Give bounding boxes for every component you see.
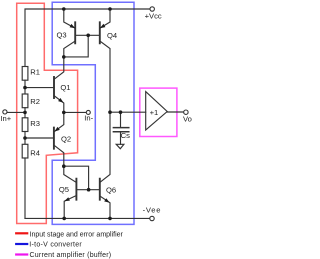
wire: mirror diode connection [64, 35, 88, 57]
svg-text:Cs: Cs [121, 131, 130, 140]
terminal +Vcc [150, 7, 154, 11]
terminal -Vee [150, 216, 154, 220]
wire: Q5-Q6 base tie [76, 189, 99, 191]
legend magenta key [16, 253, 27, 255]
node: summing node [108, 110, 112, 114]
ground [116, 144, 124, 148]
node: Q2/Q5 collector junction [62, 164, 66, 168]
node: mirror base tap [86, 34, 90, 38]
svg-text:In-: In- [84, 114, 93, 123]
wire: Q6 emitter lead [100, 196, 110, 218]
wire: op-amp output [167, 111, 183, 113]
node: R3/R4 junction [23, 136, 27, 140]
wire: R1-R2 lead [24, 80, 26, 94]
wire: Q2 emitter lead [54, 112, 64, 131]
node: Q5/Q6 base tap [87, 188, 91, 192]
svg-text:-Vee: -Vee [143, 205, 162, 214]
wire: Cs top lead [120, 112, 122, 127]
wire: Q1 emitter to In- node [54, 96, 64, 113]
legend [16, 233, 27, 254]
wire: +Vcc rail [25, 9, 150, 67]
transistor Q4 [100, 22, 106, 43]
wire: Q1 base wire [25, 87, 54, 89]
legend blue key [16, 243, 27, 245]
svg-text:+Vcc: +Vcc [145, 12, 162, 21]
terminal In- [86, 110, 90, 114]
node: R1/R2 junction [23, 86, 27, 90]
svg-text:Q5: Q5 [59, 185, 69, 194]
transistor Q2 [54, 127, 60, 149]
region box: I-to-V converter (blue) [52, 2, 134, 224]
region box: input stage and error amplifier (red) [17, 3, 78, 223]
op-amp U1 triangle [146, 92, 168, 130]
legend red key [16, 232, 27, 234]
transistor Q1 [54, 77, 64, 103]
svg-text:Q6: Q6 [106, 185, 116, 194]
svg-text:R2: R2 [30, 97, 40, 106]
wire: Q3 collector lead [64, 41, 75, 57]
wire: R2-R3 lead [24, 108, 26, 118]
wire: Q2 base wire [25, 137, 54, 139]
wire: Q2 collector to Q5 collector tie [64, 166, 89, 190]
svg-text:Current amplifier (buffer): Current amplifier (buffer) [30, 252, 112, 259]
svg-text:I-to-V converter: I-to-V converter [29, 242, 82, 249]
svg-text:In+: In+ [0, 114, 11, 123]
terminal In+ [3, 110, 7, 114]
svg-text:+1: +1 [150, 108, 159, 117]
terminal Vo [184, 110, 188, 114]
node: Q4 emitter / rail [108, 7, 112, 11]
transistor Q3 [70, 22, 76, 43]
capacitor Cs plates [113, 127, 128, 129]
node: Q3 diode junction [62, 55, 66, 59]
resistor R1 [22, 67, 28, 81]
svg-text:R3: R3 [30, 119, 40, 128]
transistor Q6 [100, 179, 110, 203]
svg-text:Q1: Q1 [60, 83, 70, 92]
region box: current amplifier buffer (magenta) [140, 88, 177, 136]
wire: Cs to ground [120, 132, 122, 144]
node: Cs branch [119, 110, 123, 114]
wire: Q4 collector down to node and Q6 collector [100, 41, 110, 183]
wire: R3-R4 lead [24, 132, 26, 145]
wire: -Vee rail [25, 217, 150, 219]
svg-text:R1: R1 [30, 68, 40, 77]
svg-text:R4: R4 [30, 149, 40, 158]
node: Q3 emitter / rail [62, 7, 66, 11]
resistor R2 [22, 94, 28, 108]
svg-text:Q4: Q4 [107, 31, 117, 40]
wire: In+ lead [7, 111, 25, 113]
node: In- emitter junction [62, 111, 66, 115]
wire: In- lead [64, 111, 86, 113]
wire: R4 to -Vee rail [24, 158, 26, 218]
resistor R3 [22, 118, 28, 132]
node: Q6 emitter / rail [108, 217, 112, 221]
svg-text:Q2: Q2 [61, 134, 71, 143]
node: Q5 emitter / rail [62, 217, 66, 221]
wire: node to op-amp input [110, 111, 146, 113]
wire: Q2 collector lead [54, 145, 64, 166]
wire: Q5 emitter lead [64, 196, 76, 219]
terminal circles [3, 7, 188, 221]
wire: Q5 collector lead [64, 166, 77, 182]
svg-text:Q3: Q3 [57, 30, 67, 39]
resistor R4 [22, 144, 28, 158]
transistor Q5 [64, 179, 76, 202]
svg-text:Input stage and error amplifie: Input stage and error amplifier [30, 231, 124, 238]
node: R2/R3 junction [23, 111, 27, 115]
svg-text:Vo: Vo [183, 115, 192, 124]
wire: Q3 collector to Q1 collector [54, 57, 64, 79]
wire: Q3 emitter lead [64, 9, 75, 28]
wire: Q3-Q4 base tie [75, 34, 100, 36]
wire: Q4 emitter lead [100, 9, 110, 28]
